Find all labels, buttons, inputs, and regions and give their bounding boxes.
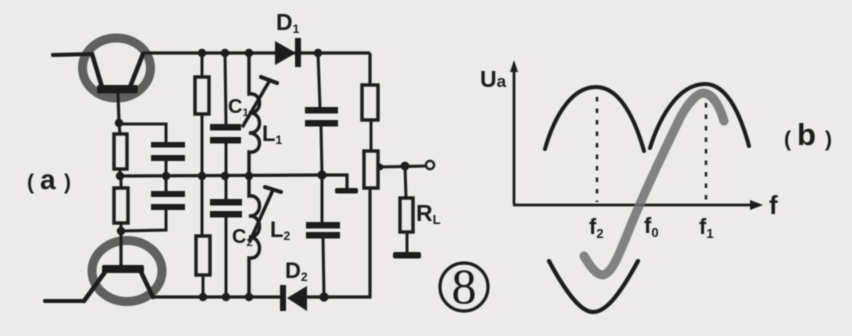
wire C1 top lead <box>225 53 226 124</box>
capacitor top-right plate 2 <box>305 120 338 127</box>
node top rail x225 <box>221 49 229 57</box>
capacitor C2 plate 1 <box>210 199 242 206</box>
inverted bell below axis <box>549 261 638 312</box>
svg-text:f: f <box>769 190 778 220</box>
inductor L2 coil <box>249 176 260 297</box>
resonance bell f1 <box>650 84 749 148</box>
wire R lower-left leads <box>120 176 123 188</box>
svg-text:(: ( <box>27 171 34 194</box>
svg-text:(: ( <box>784 128 791 151</box>
inductor L1 trimmer bar <box>261 77 277 83</box>
capacitor C1 plate 1 <box>210 124 241 131</box>
node middle rail x202 <box>198 172 206 180</box>
node middle rail x322 <box>317 170 326 179</box>
wire resistor column bottom lead <box>202 275 205 297</box>
node top rail x318 <box>314 49 322 57</box>
transistor Q2 base lead <box>119 231 122 266</box>
capacitor C2 plate 2 <box>210 211 242 218</box>
wire Q1 base to capacitor <box>119 124 166 142</box>
inductor L2 trimmer bar <box>265 187 281 192</box>
ground bar below RL <box>393 252 421 259</box>
svg-text:8: 8 <box>452 258 477 314</box>
discriminator S-curve (gray) <box>584 93 724 275</box>
wire between right resistors <box>370 120 373 151</box>
transistor Q1 ring <box>83 38 151 98</box>
wire top rail <box>143 51 370 54</box>
transistor Q2 right leg <box>141 272 153 297</box>
wire bottom rail <box>152 295 280 298</box>
svg-text:): ) <box>64 171 71 194</box>
graph Y axis arrowhead <box>510 60 518 72</box>
wire tap to output <box>378 166 426 167</box>
resistor right column lower (tapped) <box>364 151 378 188</box>
inductor L1 coil <box>249 53 260 176</box>
svg-text:b: b <box>797 117 816 152</box>
transistor Q2 left leg <box>84 272 105 301</box>
ground chassis bar <box>335 188 358 194</box>
transistor Q1 right diagonal <box>130 54 143 87</box>
node top rail x202 <box>198 49 206 57</box>
wire C2 top lead <box>225 176 228 199</box>
node tap on resistor <box>377 164 384 171</box>
node middle rail x166 <box>162 172 170 180</box>
transistor Q1 base bar <box>97 85 138 94</box>
wire output junction down to RL <box>405 166 406 198</box>
node bottom rail x249 <box>245 293 253 301</box>
capacitor lower-left plate 1 <box>151 191 185 197</box>
node bottom rail x203 <box>199 293 207 301</box>
node Q2 base <box>117 227 125 235</box>
resistor RL <box>400 198 413 232</box>
wire top-right corner down <box>368 53 371 85</box>
graph X axis arrowhead <box>750 200 763 210</box>
capacitor bottom-right plate 1 <box>306 222 340 229</box>
resistor R lower-left (base Q2) <box>114 188 128 223</box>
graph X axis <box>513 204 752 207</box>
svg-text:a: a <box>40 164 56 195</box>
capacitor lower-left plate 2 <box>151 204 185 210</box>
svg-text:): ) <box>825 128 832 151</box>
resistor right column upper <box>362 85 378 120</box>
diode D2 cathode bar <box>280 285 286 311</box>
transistor Q2 base bar <box>102 265 144 273</box>
transistor Q1 base lead <box>118 93 119 123</box>
wire C1 bottom lead <box>225 143 228 176</box>
graph Y axis <box>513 68 516 204</box>
node middle rail x120 <box>116 172 124 180</box>
capacitor top-right lead <box>318 53 320 107</box>
dashed line f2 <box>596 97 598 202</box>
wire resistor column middle <box>201 114 204 236</box>
node Q1 base <box>115 119 123 127</box>
wire middle rail <box>119 175 322 176</box>
capacitor C1 plate 2 <box>210 137 241 144</box>
capacitor upper-left plate 2 <box>151 155 185 161</box>
capacitor top-right plate 1 <box>305 107 338 114</box>
node output junction <box>401 162 410 171</box>
wire resistor column top lead <box>201 53 204 77</box>
capacitor bottom-right lead <box>321 175 324 222</box>
wire ground stub <box>322 175 347 189</box>
node bottom rail x324 <box>319 292 328 301</box>
wire R upper-left leads <box>119 123 120 134</box>
wire capacitor top-right to middle rail <box>321 126 322 175</box>
diode D2 triangle <box>287 286 307 311</box>
node top rail x249 <box>245 49 253 57</box>
terminal output circle <box>426 161 434 169</box>
transistor Q1 left lead <box>53 54 92 55</box>
dashed line f1 <box>705 103 707 202</box>
diode D1 triangle <box>275 41 296 65</box>
node middle rail x249 <box>245 172 253 180</box>
wire capacitor to middle rail <box>165 161 168 176</box>
wire capacitor bottom-right to bottom rail <box>323 238 324 297</box>
diode D1 cathode bar <box>295 38 301 67</box>
transistor Q1 left diagonal <box>92 54 102 87</box>
figure number circle 8 <box>440 263 488 311</box>
inductor L1 trimmer arrow <box>243 80 270 126</box>
resonance bell f2 <box>545 87 644 151</box>
resistor R upper-left (base Q1) <box>114 134 127 169</box>
transistor Q2 left lead <box>45 299 84 303</box>
capacitor upper-left plate 1 <box>151 142 185 148</box>
wire middle rail to capacitor <box>165 176 168 191</box>
capacitor bottom-right plate 2 <box>306 232 340 239</box>
wire capacitor to Q2 base <box>121 210 166 231</box>
node bottom rail x226 <box>222 293 230 301</box>
wire RL to ground <box>406 232 409 253</box>
resistor column x202 top resistor <box>195 77 209 114</box>
transistor Q2 ring <box>92 241 162 302</box>
node middle rail x225 <box>221 172 229 180</box>
resistor column x202 bottom resistor <box>196 236 210 275</box>
inductor L2 trimmer arrow <box>250 192 272 241</box>
wire C2 bottom lead <box>225 217 228 297</box>
wire bottom rail right of D2 <box>307 188 370 297</box>
